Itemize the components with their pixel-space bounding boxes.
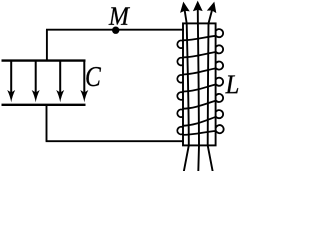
wire left vertical bottom xyxy=(46,105,48,141)
label C xyxy=(86,67,101,86)
inductor L winding left curls xyxy=(177,40,183,134)
label L xyxy=(225,76,238,94)
capacitor field arrow 3 xyxy=(56,62,64,103)
inductor L winding turns (diagonals into right loops) xyxy=(182,29,223,135)
wire top horizontal rail xyxy=(46,29,184,31)
capacitor C top plate xyxy=(2,59,86,61)
capacitor field arrow 4 xyxy=(80,62,88,103)
magnetic field line left (with arrow) xyxy=(180,2,190,172)
node M dot xyxy=(112,27,119,34)
magnetic field line middle (with arrow) xyxy=(193,1,203,172)
inductor L core outline xyxy=(183,23,216,145)
capacitor field arrow 2 xyxy=(32,62,40,103)
capacitor field arrow 1 xyxy=(7,62,15,103)
capacitor C bottom plate xyxy=(2,104,86,106)
label M xyxy=(109,7,130,24)
magnetic field line right (with arrow) xyxy=(207,2,216,172)
wire left vertical top xyxy=(46,30,48,61)
wire bottom horizontal rail xyxy=(46,140,184,142)
